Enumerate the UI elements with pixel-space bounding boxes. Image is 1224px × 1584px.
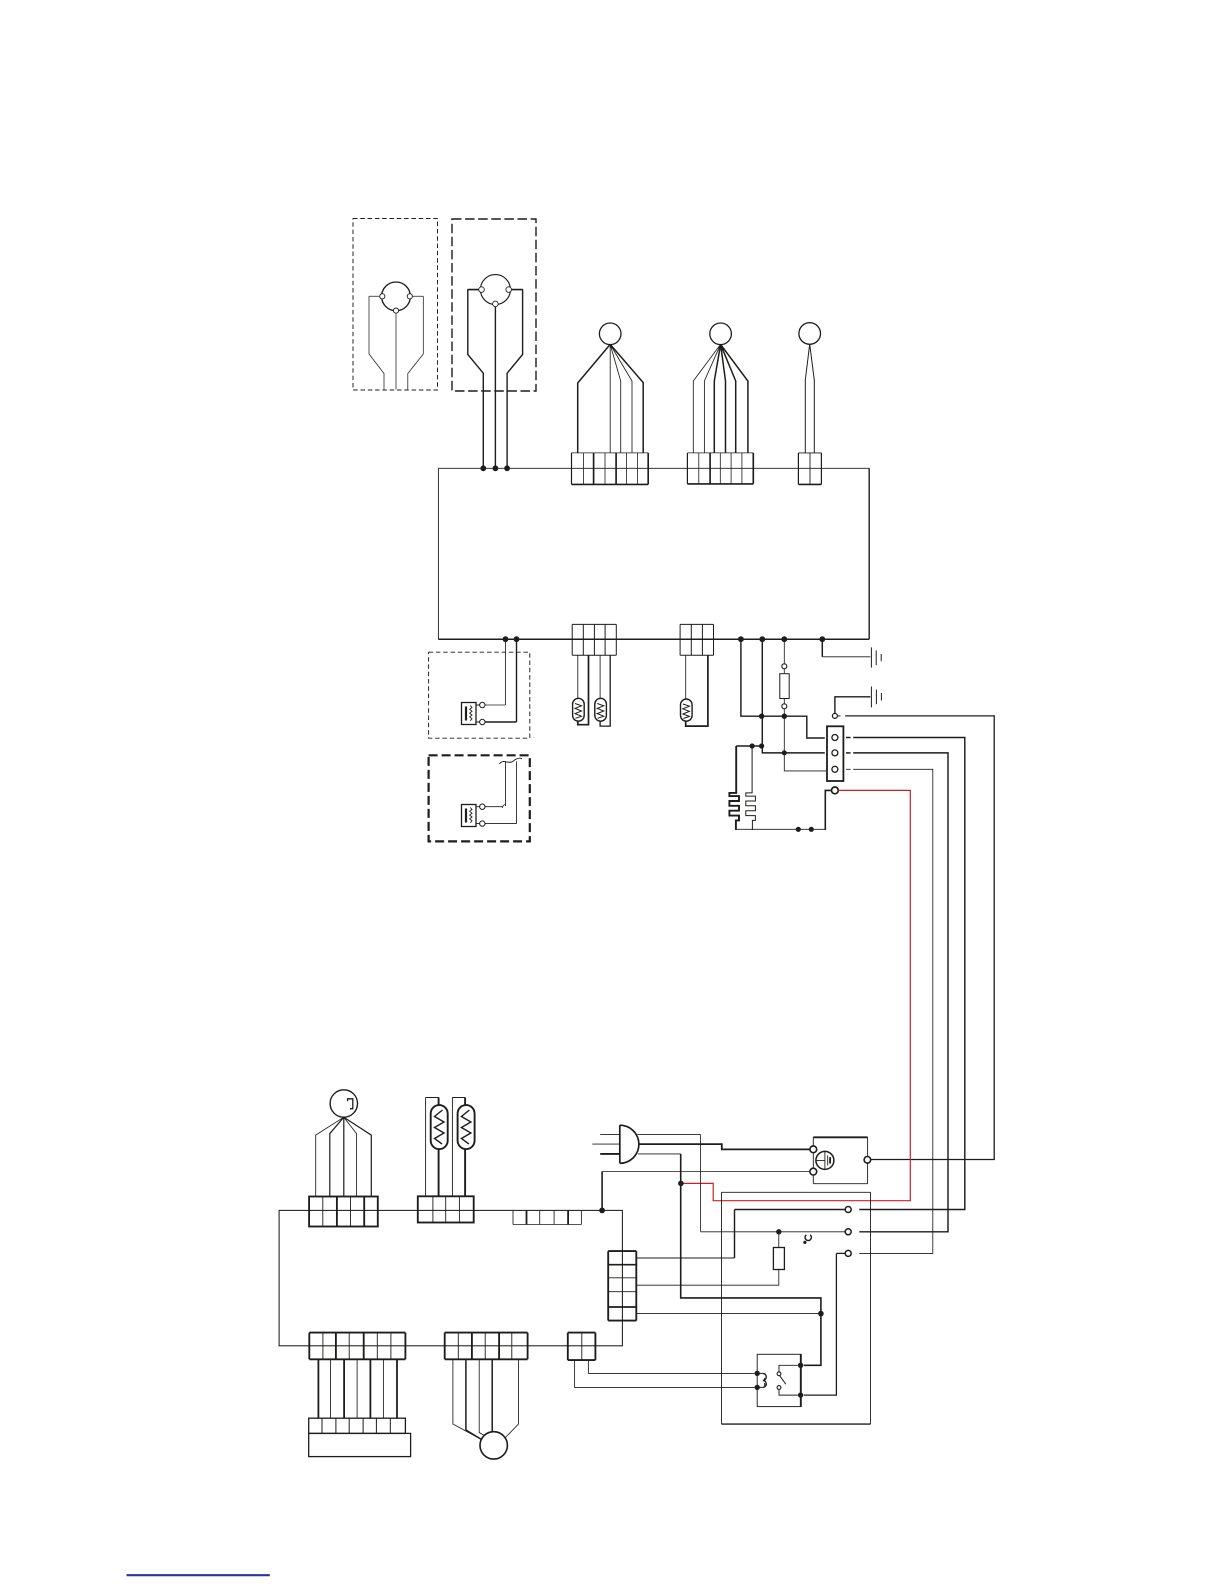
- interference filter C1 (meander): [729, 746, 739, 830]
- fuse F1: [780, 641, 789, 717]
- wire T1 pin1 long run: [846, 737, 851, 739]
- connector J11 with housing: [309, 1418, 411, 1456]
- connector J7 (4-way): [418, 1196, 474, 1222]
- connector J2 (6-way): [687, 453, 753, 484]
- wiring harness W4 (grill fan-out): [316, 1090, 372, 1197]
- connector J1 (7-way): [572, 453, 649, 485]
- connector J8 (5-way, on top edge): [513, 1210, 581, 1224]
- wire filter return to red pin: [736, 828, 825, 830]
- power board U2 (lower PCB): [279, 1210, 622, 1345]
- wire J9 row5 to live trunk: [636, 1313, 821, 1315]
- connector J6 (5-way): [309, 1197, 378, 1227]
- node dots TS2 wires: [480, 465, 486, 471]
- thermostat mark (degree C): [805, 1235, 811, 1241]
- wire P1 to oven lamp (long run): [837, 715, 840, 717]
- door terminal D1: [845, 1207, 851, 1213]
- connector J12 (6-way, bottom): [445, 1333, 528, 1360]
- wiring harness W5 (to sensor bulb): [453, 1359, 519, 1459]
- heater element R5 with rail: [452, 1098, 474, 1197]
- wire lamp neutral to board dot: [602, 1171, 810, 1173]
- interference filter C2 (meander): [746, 746, 756, 830]
- connector J13 (2-way, bottom): [568, 1333, 596, 1361]
- relay K1: [755, 1354, 804, 1406]
- igniter module IG2 (dashed box, remote): [429, 755, 530, 841]
- heater element R4 with rail: [426, 1098, 448, 1197]
- wires TS2 to control board: [483, 391, 507, 468]
- mains cord wires: [638, 1134, 701, 1136]
- ground G1: [822, 641, 881, 668]
- heater element R1: [573, 655, 589, 724]
- thermal fuse F2: [636, 1232, 784, 1285]
- wires door switch connector to relay coil: [575, 1360, 755, 1387]
- neutral wire to door terminal: [701, 1135, 846, 1232]
- terminal strip T1: [827, 726, 843, 781]
- wire to terminal T1 pin2: [762, 641, 825, 753]
- temperature sensor TS1 (dashed option box): [353, 219, 438, 391]
- wiring harness W1 (left fan-out): [578, 323, 644, 453]
- connector J10 (7-way, bottom): [309, 1333, 405, 1360]
- door terminal D2: [845, 1229, 851, 1235]
- door terminal D3: [845, 1250, 851, 1256]
- heater element R2: [595, 655, 610, 726]
- wire T1 pin3 long run: [846, 768, 851, 770]
- node dots on board bottom edge: [503, 636, 509, 642]
- control board U1 (main PCB): [438, 468, 869, 639]
- live trunk wire to relay: [681, 1154, 821, 1365]
- igniter module IG1 (dashed box): [429, 641, 530, 739]
- ribbon wires J10 to J11: [318, 1359, 397, 1418]
- wiring harness W2 (middle fan-out): [693, 323, 748, 453]
- capacitor branch wires: [736, 745, 761, 747]
- wire node N1 to terminal T1 pin1: [741, 641, 825, 739]
- footer rule: [127, 1574, 270, 1576]
- red wire (live feed): [683, 790, 910, 1200]
- wire link to terminal T1 pin3: [784, 716, 826, 771]
- oven lamp unit L1: [810, 1137, 871, 1183]
- red pin P2: [832, 787, 839, 794]
- connector J5 (3-way, bottom of board): [680, 624, 713, 655]
- connector J3 (2-way): [798, 453, 821, 485]
- heater element R3: [681, 655, 708, 726]
- wiring harness W3 (right pair): [799, 323, 821, 453]
- pin P1 to ground G2: [832, 687, 881, 719]
- control housing enclosure: [722, 1192, 871, 1424]
- wire T1 pin2 long run: [846, 752, 851, 754]
- temperature sensor TS2 (dashed box, wired): [452, 219, 536, 391]
- mains plug P3: [592, 1125, 639, 1163]
- connector J4 (4-way, bottom of board): [572, 624, 616, 655]
- connector J9 (2x5, right edge): [608, 1251, 636, 1321]
